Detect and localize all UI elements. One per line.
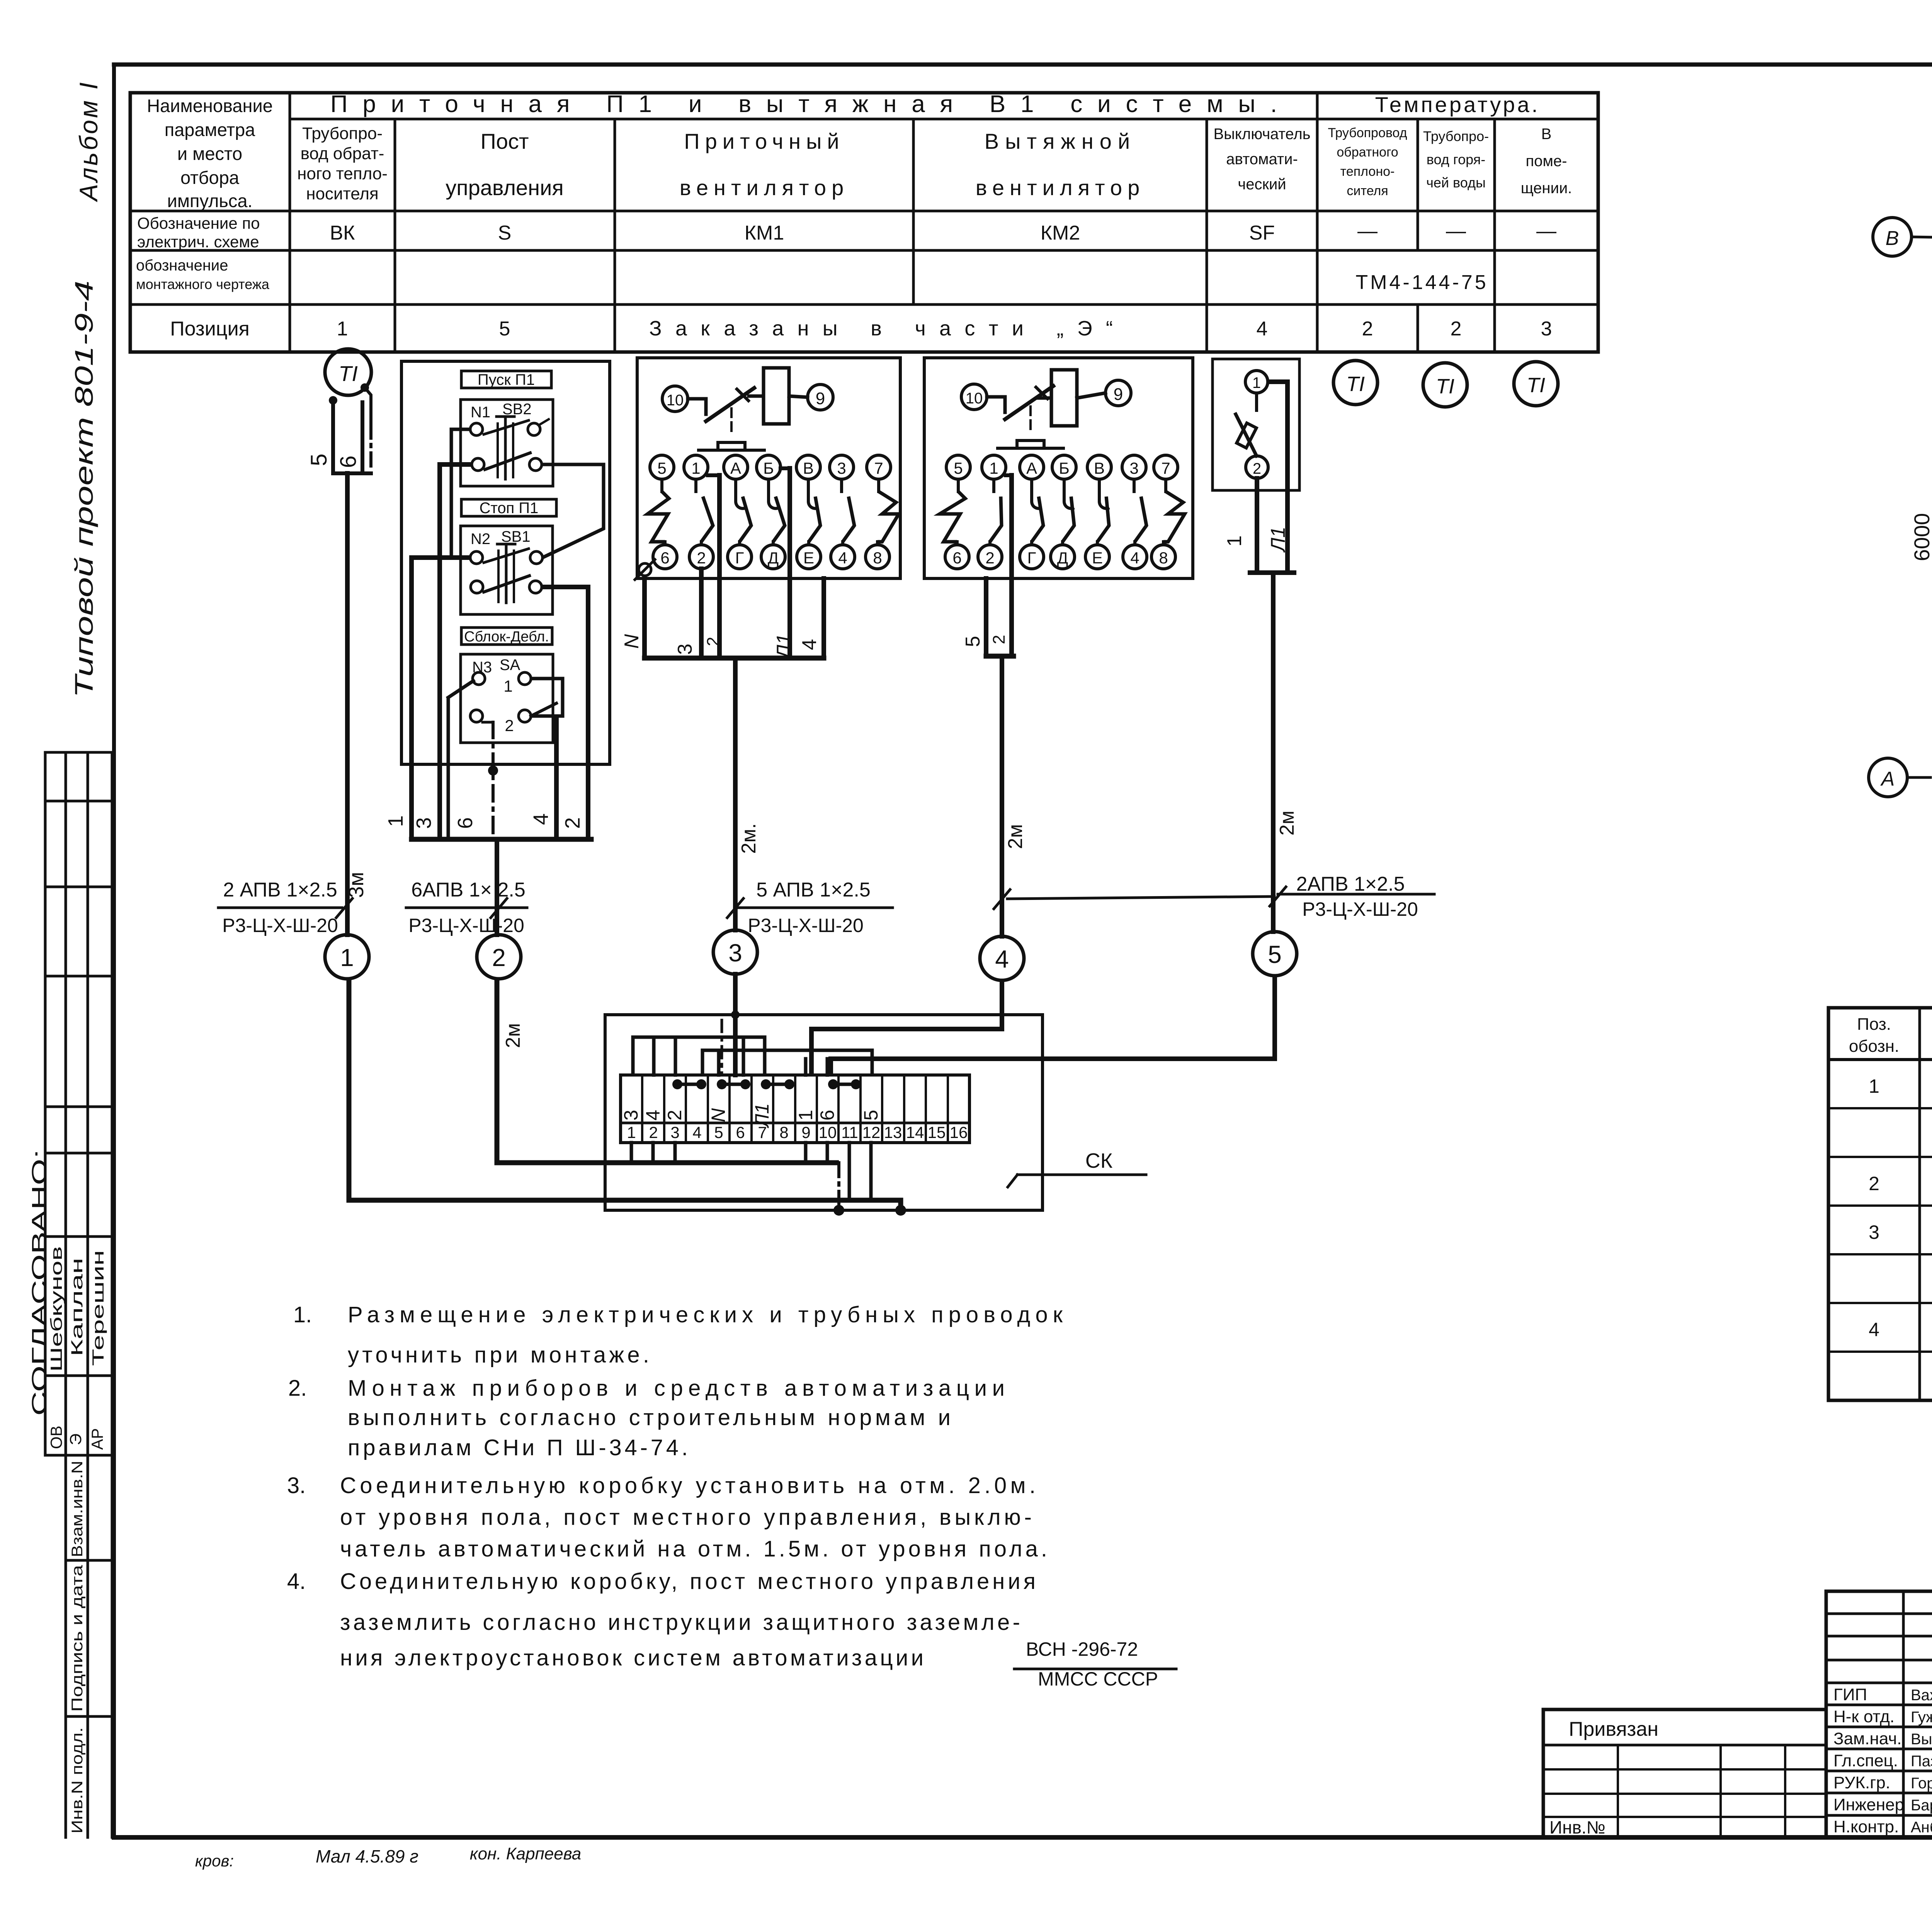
svg-text:сителя: сителя	[1347, 184, 1388, 198]
svg-text:Зам.нач.: Зам.нач.	[1833, 1729, 1901, 1748]
svg-text:10: 10	[819, 1123, 837, 1141]
svg-text:2: 2	[1253, 460, 1261, 477]
svg-text:2: 2	[492, 944, 506, 971]
svg-text:Гл.спец.: Гл.спец.	[1833, 1751, 1898, 1770]
svg-text:Мал 4.5.89 г: Мал 4.5.89 г	[316, 1846, 418, 1866]
svg-text:3: 3	[1541, 318, 1552, 340]
svg-text:3.: 3.	[287, 1473, 306, 1498]
svg-text:Приточный: Приточный	[684, 129, 844, 153]
svg-text:обратного: обратного	[1337, 145, 1398, 160]
svg-text:6000: 6000	[1910, 513, 1932, 561]
svg-text:5: 5	[954, 459, 963, 477]
breaker SF box	[1213, 359, 1299, 490]
svg-text:TI: TI	[1527, 374, 1545, 397]
svg-text:чатель автоматический на о: чатель автоматический на отм. 1.5м. от у…	[340, 1536, 1047, 1561]
svg-text:6: 6	[816, 1110, 838, 1121]
station internal wires	[412, 429, 604, 839]
svg-text:электрич. схеме: электрич. схеме	[137, 233, 259, 251]
contactor KM1 coil circuit wires	[688, 388, 808, 450]
svg-text:2 АПВ 1×2.5: 2 АПВ 1×2.5	[223, 879, 337, 901]
svg-text:3м: 3м	[345, 872, 368, 898]
thermometer TI2	[1333, 361, 1378, 405]
svg-text:—: —	[1446, 220, 1466, 242]
svg-text:—: —	[1536, 220, 1556, 242]
svg-text:Терешин: Терешин	[89, 1250, 107, 1366]
bound block Привязан	[1543, 1709, 1826, 1837]
svg-text:TI: TI	[338, 361, 358, 386]
svg-text:3: 3	[1869, 1221, 1879, 1243]
KM2 wire labels 5 2	[962, 635, 1009, 647]
svg-text:Б: Б	[763, 459, 774, 477]
svg-text:5: 5	[714, 1123, 723, 1141]
svg-text:7: 7	[1161, 459, 1170, 477]
svg-text:Г: Г	[735, 549, 744, 567]
pushbutton station box	[401, 361, 610, 764]
svg-text:ческий: ческий	[1238, 176, 1286, 193]
handwritten bottom notes	[195, 1844, 581, 1870]
svg-text:ГИП: ГИП	[1833, 1685, 1867, 1704]
svg-text:7: 7	[874, 459, 883, 477]
svg-text:РУК.гр.: РУК.гр.	[1833, 1773, 1890, 1792]
axis B	[1873, 218, 1932, 256]
svg-text:2: 2	[561, 817, 584, 829]
svg-text:Выборный: Выборный	[1911, 1731, 1932, 1748]
axis A	[1869, 758, 1932, 797]
svg-text:2м: 2м	[1004, 824, 1027, 849]
svg-text:ного тепло-: ного тепло-	[297, 164, 388, 183]
svg-text:3: 3	[412, 817, 435, 829]
svg-text:носителя: носителя	[306, 184, 379, 203]
svg-text:N: N	[621, 634, 643, 649]
label Пуск П1	[461, 371, 551, 388]
svg-text:В: В	[803, 459, 814, 477]
sidebar stamp table	[45, 752, 112, 1837]
breaker contact with thermal element	[1236, 393, 1257, 456]
svg-text:9: 9	[801, 1123, 810, 1141]
contactor KM1 contact 5-6	[648, 455, 677, 569]
svg-text:9: 9	[816, 389, 825, 408]
svg-text:Е: Е	[1092, 549, 1103, 567]
breaker pin 1	[1245, 371, 1268, 393]
wire labels 1 3 6 4 2	[384, 813, 584, 829]
junction box CK outline	[605, 1015, 1043, 1210]
svg-text:Н-к отд.: Н-к отд.	[1833, 1707, 1895, 1726]
contactor KM2 pin 10	[961, 384, 987, 410]
svg-text:ВСН -296-72: ВСН -296-72	[1026, 1638, 1138, 1660]
terminal jumpers	[672, 1079, 861, 1089]
contactor KM2 contact 7-8	[1151, 455, 1185, 569]
node 3 circle	[713, 930, 757, 974]
svg-text:N1: N1	[471, 404, 490, 421]
svg-text:4: 4	[1869, 1319, 1879, 1340]
svg-text:—: —	[1357, 220, 1378, 242]
svg-text:Инженер: Инженер	[1833, 1795, 1904, 1814]
svg-text:вод обрат-: вод обрат-	[301, 144, 384, 163]
svg-text:2м: 2м	[1276, 811, 1298, 836]
svg-text:КМ2: КМ2	[1041, 222, 1080, 244]
svg-text:3: 3	[620, 1110, 642, 1121]
wire pair from TI1	[333, 400, 371, 473]
svg-text:10: 10	[667, 392, 684, 409]
contactor KM2 contact В-Е	[1085, 455, 1111, 569]
svg-text:импульса.: импульса.	[167, 191, 252, 211]
svg-text:1: 1	[795, 1110, 816, 1121]
contactor KM2 contact А-Г	[1020, 455, 1044, 569]
svg-text:Подпись и дата: Подпись и дата	[69, 1565, 86, 1712]
svg-text:Э: Э	[66, 1434, 85, 1445]
svg-text:4: 4	[798, 639, 821, 650]
svg-text:6: 6	[454, 817, 477, 829]
svg-text:Позиция: Позиция	[170, 318, 250, 340]
station bottom bus	[412, 837, 591, 842]
svg-text:5: 5	[860, 1110, 882, 1121]
svg-text:монтажного чертежа: монтажного чертежа	[136, 276, 270, 292]
svg-text:2м.: 2м.	[738, 823, 760, 854]
svg-text:кров:: кров:	[195, 1852, 234, 1870]
label Стоп П1	[461, 499, 556, 517]
svg-text:Каплан: Каплан	[68, 1258, 86, 1356]
svg-text:выполнить согласно строите: выполнить согласно строительным нормам и	[348, 1405, 951, 1430]
svg-text:1: 1	[627, 1123, 636, 1141]
svg-text:2м: 2м	[502, 1023, 524, 1048]
terminal strip circuit labels	[620, 1103, 882, 1128]
svg-text:Наименование: Наименование	[147, 95, 273, 116]
parts table rows	[1869, 1075, 1932, 1389]
svg-text:Выключатель: Выключатель	[1213, 126, 1310, 143]
svg-text:В: В	[1094, 459, 1105, 477]
svg-text:8: 8	[1159, 549, 1168, 567]
node 2 circle	[477, 935, 521, 979]
svg-text:Д: Д	[768, 549, 779, 567]
svg-text:2: 2	[697, 549, 706, 567]
wire from node 5 into junction box	[831, 976, 1275, 1075]
dimension 6000	[1910, 237, 1932, 777]
node 1 circle	[325, 935, 369, 979]
node 4 circle	[980, 936, 1024, 980]
svg-text:Н.контр.: Н.контр.	[1833, 1817, 1899, 1836]
svg-text:обозначение: обозначение	[136, 257, 228, 274]
svg-text:Р3-Ц-Х-Ш-20: Р3-Ц-Х-Ш-20	[222, 915, 338, 936]
svg-text:2: 2	[704, 637, 723, 646]
svg-text:5 АПВ 1×2.5: 5 АПВ 1×2.5	[756, 879, 871, 901]
svg-text:чей воды: чей воды	[1426, 175, 1486, 191]
contactor KM1 contact Б-Д	[757, 455, 785, 569]
node dots under TI1	[329, 383, 369, 405]
svg-text:Инв.№: Инв.№	[1549, 1817, 1605, 1837]
svg-text:1: 1	[384, 815, 407, 827]
svg-text:4: 4	[1257, 318, 1268, 340]
svg-text:SA: SA	[500, 657, 520, 674]
svg-text:15: 15	[928, 1123, 946, 1141]
svg-text:ОВ: ОВ	[47, 1425, 65, 1449]
svg-text:ТМ4-144-75: ТМ4-144-75	[1355, 271, 1488, 294]
svg-text:5: 5	[499, 318, 510, 340]
svg-text:TI: TI	[1346, 373, 1365, 396]
svg-text:8: 8	[779, 1123, 788, 1141]
svg-text:S: S	[498, 222, 512, 244]
svg-text:автомати-: автомати-	[1226, 151, 1298, 168]
svg-text:1: 1	[691, 459, 700, 477]
svg-text:4: 4	[529, 813, 553, 825]
svg-text:4: 4	[995, 945, 1009, 973]
pushbutton SB1	[461, 526, 553, 614]
breaker outgoing wires	[1250, 382, 1294, 573]
svg-text:2: 2	[664, 1110, 685, 1121]
wire from node 3 into junction box	[733, 974, 738, 1075]
svg-text:Вахрушев: Вахрушев	[1911, 1687, 1932, 1704]
svg-text:КМ1: КМ1	[745, 222, 784, 244]
svg-text:В: В	[1541, 126, 1552, 143]
svg-text:Р3-Ц-Х-Ш-20: Р3-Ц-Х-Ш-20	[748, 915, 864, 936]
svg-text:СК: СК	[1085, 1149, 1113, 1172]
svg-text:Л1: Л1	[1267, 527, 1289, 553]
contactor KM2 coil	[1051, 370, 1077, 426]
wire from node 1 to junction box	[349, 979, 901, 1210]
svg-text:TI: TI	[1436, 375, 1454, 398]
cable label 2 АПВ 1х2.5	[218, 879, 352, 936]
svg-text:Поз.: Поз.	[1857, 1015, 1891, 1034]
svg-text:Альбом I: Альбом I	[74, 80, 103, 202]
svg-text:А: А	[730, 459, 741, 477]
svg-text:теплоно-: теплоно-	[1340, 164, 1395, 179]
parameter table texts	[136, 91, 1572, 340]
breaker pin 2	[1246, 456, 1268, 478]
svg-text:14: 14	[906, 1123, 924, 1141]
contactor KM1 contact 3-4	[830, 455, 855, 569]
svg-text:Приточная П1 и вытяжная В1: Приточная П1 и вытяжная В1 системы.	[330, 91, 1277, 117]
svg-text:Монтаж приборов и средст: Монтаж приборов и средств автоматизации	[348, 1376, 1005, 1401]
svg-text:вод горя-: вод горя-	[1427, 151, 1485, 167]
svg-text:3: 3	[837, 459, 846, 477]
svg-text:2: 2	[1869, 1173, 1879, 1194]
notes	[287, 1302, 1176, 1690]
svg-text:Б: Б	[1059, 459, 1070, 477]
svg-text:Л1: Л1	[773, 634, 795, 660]
svg-text:6: 6	[952, 549, 961, 567]
wire from node 2 to junction box	[497, 979, 839, 1163]
svg-text:4: 4	[692, 1123, 701, 1141]
svg-text:5: 5	[962, 636, 984, 647]
label Сблок-Дебл	[461, 628, 552, 645]
parameter table grid	[130, 93, 1598, 352]
KM2 outgoing wires	[986, 475, 1014, 656]
label СК	[1008, 1149, 1146, 1187]
selector switch SA	[461, 654, 556, 743]
svg-text:Трубопро-: Трубопро-	[302, 124, 383, 143]
svg-text:А: А	[1880, 768, 1895, 790]
svg-text:4: 4	[642, 1110, 664, 1121]
cable label 2АПВ 1х2.5	[1270, 873, 1434, 920]
svg-text:Типовой проект 801-9-4: Типовой проект 801-9-4	[70, 281, 98, 698]
cable rule between nodes 4 and 5	[994, 890, 1274, 909]
svg-text:ВК: ВК	[330, 222, 355, 244]
svg-text:11: 11	[841, 1123, 858, 1141]
grounding dash-dot wire	[483, 722, 498, 839]
svg-text:2АПВ 1×2.5: 2АПВ 1×2.5	[1296, 873, 1405, 895]
svg-text:Д: Д	[1057, 549, 1068, 567]
svg-text:1: 1	[503, 677, 512, 695]
wire to node 2	[495, 839, 499, 935]
svg-text:9: 9	[1114, 385, 1123, 404]
thermometer TI3	[1423, 363, 1467, 407]
svg-text:1: 1	[1869, 1075, 1879, 1097]
svg-text:ММСС СССР: ММСС СССР	[1038, 1668, 1158, 1690]
contactor KM1 contact 7-8	[866, 455, 899, 569]
contactor KM2 contact 5-6	[940, 455, 970, 569]
sidebar labels	[69, 1461, 86, 1834]
svg-text:Гужба: Гужба	[1911, 1709, 1932, 1726]
svg-text:N: N	[707, 1108, 729, 1122]
capillary dash-dot from TI1	[365, 388, 371, 471]
junction box internal wiring bottom	[631, 1143, 871, 1200]
svg-text:2: 2	[990, 635, 1009, 644]
contactor KM1 contact В-Е	[796, 455, 821, 569]
svg-text:вентилятор: вентилятор	[680, 175, 849, 200]
wire to node 3	[733, 658, 738, 930]
svg-text:1: 1	[989, 459, 998, 477]
svg-text:2: 2	[1362, 318, 1373, 340]
parts table	[1828, 1008, 1932, 1400]
svg-text:Паз: Паз	[1911, 1753, 1932, 1770]
svg-text:3: 3	[1129, 459, 1138, 477]
svg-text:Обозначение по: Обозначение по	[137, 214, 260, 232]
title block grid	[1826, 1590, 1932, 1837]
contactor KM1 coil	[764, 368, 789, 424]
contactor KM1 contact А-Г	[724, 455, 752, 569]
svg-text:Стоп П1: Стоп П1	[480, 500, 539, 517]
contactor KM1 contact 1-2	[684, 455, 713, 569]
cable label 5 АПВ 1х2.5	[727, 879, 893, 936]
svg-text:уточнить при монтаже.: уточнить при монтаже.	[348, 1342, 649, 1368]
svg-text:кон. Карпеева: кон. Карпеева	[470, 1844, 581, 1863]
svg-text:Трубопро-: Трубопро-	[1423, 128, 1489, 144]
svg-text:16: 16	[950, 1123, 968, 1141]
ground dash-dot drop	[833, 1163, 906, 1216]
svg-text:8: 8	[873, 549, 882, 567]
svg-text:SF: SF	[1249, 222, 1275, 244]
contactor KM1 box	[637, 358, 900, 578]
svg-text:Соединительную коробку уст: Соединительную коробку установить на отм…	[340, 1473, 1036, 1498]
svg-text:2: 2	[985, 549, 994, 567]
svg-text:АР: АР	[88, 1428, 106, 1450]
KM1 outgoing wires	[645, 468, 824, 658]
svg-text:Е: Е	[803, 549, 814, 567]
svg-text:4: 4	[1130, 549, 1139, 567]
svg-text:5: 5	[657, 459, 666, 477]
svg-text:4: 4	[838, 549, 847, 567]
svg-text:3: 3	[728, 939, 742, 967]
node 5 circle	[1253, 932, 1297, 976]
svg-text:6: 6	[736, 1123, 745, 1141]
svg-text:N2: N2	[471, 531, 490, 548]
svg-text:Л1: Л1	[751, 1103, 773, 1128]
svg-text:правилам СНи П Ш-34-74.: правилам СНи П Ш-34-74.	[348, 1435, 688, 1460]
contactor KM1 pin 9	[808, 384, 833, 410]
svg-text:щении.: щении.	[1521, 180, 1572, 197]
svg-text:Шебкунов: Шебкунов	[47, 1246, 65, 1372]
svg-text:Взам.инв.N: Взам.инв.N	[69, 1461, 86, 1557]
cable label 6АПВ 1х2.5	[406, 879, 527, 936]
svg-text:Анбиндер: Анбиндер	[1911, 1819, 1932, 1836]
svg-text:Пост: Пост	[480, 129, 529, 153]
pushbutton SB2	[461, 400, 553, 486]
wire to node 5	[1271, 573, 1276, 932]
wire to node 4	[1000, 656, 1004, 936]
junction box internal wiring top	[633, 1020, 872, 1075]
svg-text:Температура.: Температура.	[1375, 92, 1540, 117]
svg-text:Барт: Барт	[1911, 1797, 1932, 1814]
svg-text:5: 5	[1268, 941, 1282, 968]
svg-text:2: 2	[1451, 318, 1462, 340]
svg-text:3: 3	[670, 1123, 679, 1141]
thermometer TI1	[325, 349, 371, 395]
svg-text:Г: Г	[1027, 549, 1036, 567]
contactor KM2 coil circuit wires	[987, 386, 1105, 448]
svg-text:параметра: параметра	[165, 119, 255, 140]
svg-text:управления: управления	[446, 175, 563, 200]
svg-text:1: 1	[340, 944, 354, 971]
svg-text:2: 2	[649, 1123, 658, 1141]
svg-text:5: 5	[306, 454, 332, 466]
svg-text:Привязан: Привязан	[1569, 1718, 1658, 1740]
svg-text:В: В	[1886, 227, 1899, 250]
svg-text:Сблок-Дебл.: Сблок-Дебл.	[464, 629, 549, 645]
svg-text:SB2: SB2	[502, 401, 532, 418]
wire to node 1	[345, 473, 350, 935]
svg-text:13: 13	[884, 1123, 902, 1141]
svg-text:Горбалетова: Горбалетова	[1911, 1775, 1932, 1792]
svg-text:Вытяжной: Вытяжной	[985, 129, 1136, 153]
svg-text:Пуск П1: Пуск П1	[478, 371, 535, 388]
contactor KM2 contact 3-4	[1122, 455, 1147, 569]
svg-text:Р3-Ц-Х-Ш-20: Р3-Ц-Х-Ш-20	[408, 915, 524, 936]
svg-text:Инв.N подл.: Инв.N подл.	[69, 1727, 86, 1834]
svg-text:12: 12	[862, 1123, 881, 1141]
sidebar names	[47, 1246, 107, 1450]
svg-text:3: 3	[674, 644, 696, 655]
svg-text:SB1: SB1	[501, 528, 531, 545]
contactor KM2 pin 9	[1105, 380, 1131, 406]
svg-text:6: 6	[336, 456, 361, 468]
svg-text:4.: 4.	[287, 1569, 306, 1594]
svg-text:вентилятор: вентилятор	[976, 175, 1145, 200]
contactor KM1 pin 10	[662, 386, 688, 412]
parts table header	[1849, 1015, 1932, 1056]
contactor KM2 contact 1-2	[978, 455, 1006, 569]
svg-text:2.: 2.	[288, 1376, 307, 1401]
svg-text:поме-: поме-	[1526, 153, 1567, 170]
contactor KM2 box	[924, 358, 1193, 578]
svg-text:1.: 1.	[293, 1302, 312, 1327]
svg-text:1: 1	[1252, 374, 1261, 391]
svg-text:2: 2	[505, 716, 514, 735]
thermometer TI4	[1514, 362, 1558, 406]
svg-text:А: А	[1026, 459, 1037, 477]
contactor KM1 ground screw	[635, 560, 655, 580]
svg-text:6АПВ 1× 2.5: 6АПВ 1× 2.5	[411, 879, 526, 901]
svg-text:1: 1	[1223, 536, 1246, 547]
svg-text:и место: и место	[177, 143, 242, 164]
wire from node 4 into junction box	[811, 980, 1002, 1075]
KM1 wire labels N 3 2 Л1 4	[621, 634, 821, 660]
svg-text:отбора: отбора	[180, 167, 240, 188]
svg-text:6: 6	[660, 549, 669, 567]
svg-text:Р3-Ц-Х-Ш-20: Р3-Ц-Х-Ш-20	[1302, 898, 1418, 920]
svg-text:10: 10	[966, 390, 983, 407]
svg-text:обозн.: обозн.	[1849, 1037, 1899, 1056]
breaker wire labels 1 Л1	[1223, 527, 1289, 553]
contactor KM2 contact Б-Д	[1051, 455, 1076, 569]
